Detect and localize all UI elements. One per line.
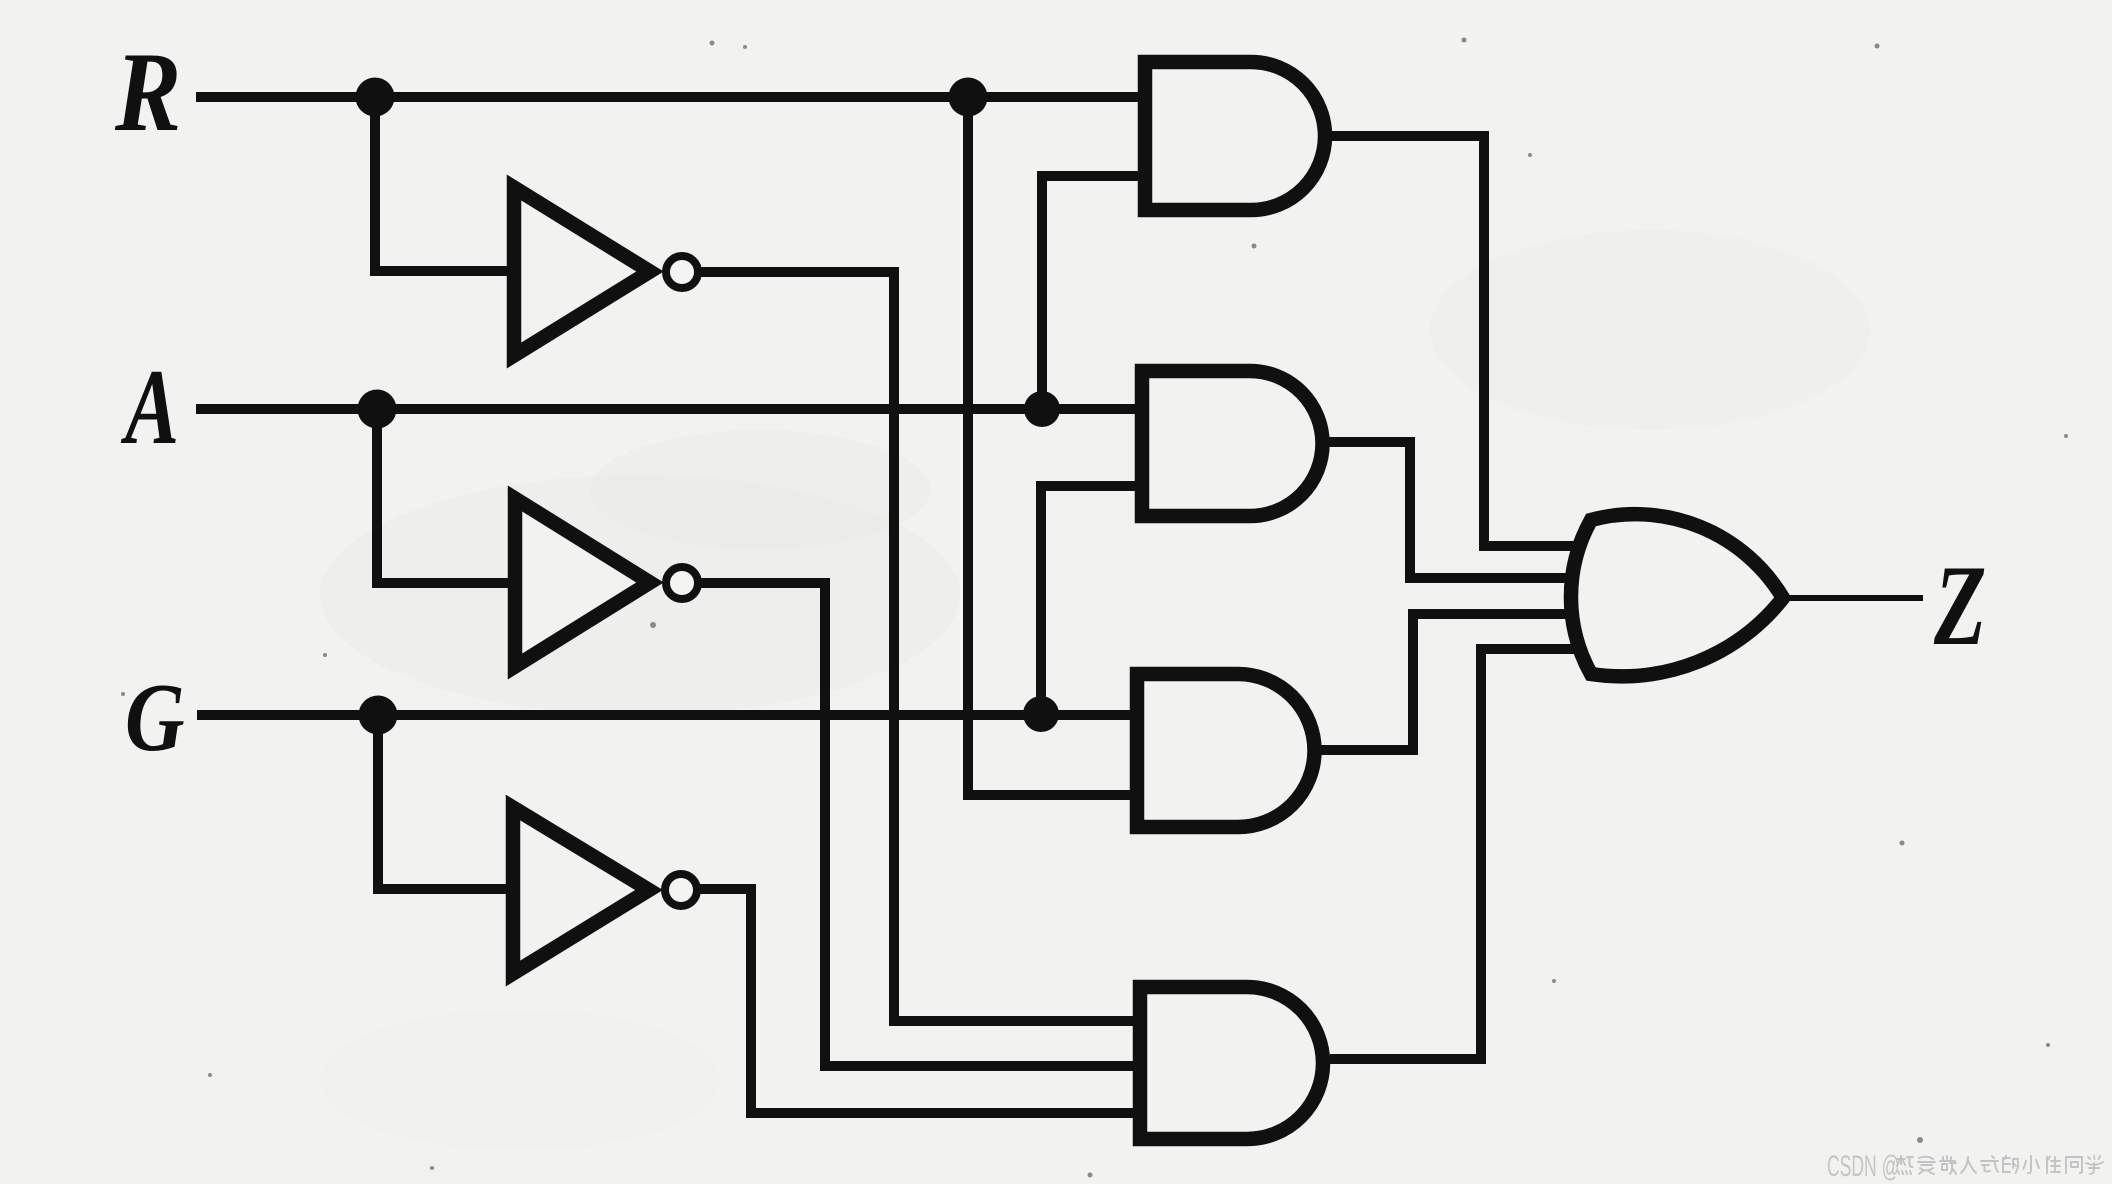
svg-text:A: A — [121, 347, 179, 467]
svg-text:G: G — [125, 665, 185, 772]
svg-text:Z: Z — [1933, 542, 1986, 670]
svg-text:R: R — [114, 30, 181, 155]
svg-text:CSDN @: CSDN @ — [1827, 1150, 1899, 1183]
